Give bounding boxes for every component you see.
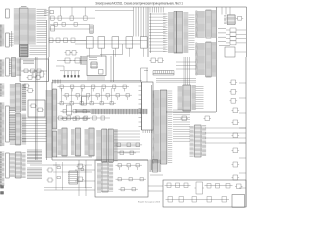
IC D33 register file [160,90,168,164]
far right box lower [225,47,235,57]
IC D32 left labels [178,86,183,109]
IC D20 left labels [46,90,53,157]
comp fr 8 [232,175,240,180]
right edge vertical [245,57,247,207]
IC D1 label block dark [20,45,28,57]
IC D30 left labels [168,13,174,53]
comp in left mid box 2 [37,108,45,112]
analog mesh wires [44,162,92,190]
comp A topleft [50,11,54,14]
IC D30 gate array body [177,12,183,54]
oscillator block outline [87,56,106,76]
IC D5 [15,152,26,178]
bottom right block outline [163,180,246,207]
wires D1 lower to box [30,46,47,55]
osc box left labels [81,56,87,65]
connector X2 labels [0,60,4,77]
gate in box B 1 [23,69,30,73]
gate chain A top2 [50,23,90,27]
gates center r5 [61,117,91,120]
wire A top right [95,10,134,12]
IC D35 [194,125,206,157]
wire conn vertical [11,31,13,47]
gate right mid a [181,116,189,121]
connector small top [6,9,10,18]
box bottom far right [232,195,245,208]
wires RP2 to D31b [176,62,196,69]
vertical bus right top [150,13,152,53]
connector X5 body [6,153,10,178]
gates center r1 [58,85,129,91]
wires far right to edge [239,83,246,188]
FF row A small [49,38,86,43]
gates bottom mid r2 [116,178,146,181]
IC D26 RAM [108,129,118,162]
oscillator box text rows [89,58,97,60]
svg-text:Юрий Зальцман 2003: Юрий Зальцман 2003 [138,200,161,203]
IC D33 left labels [153,90,160,163]
comp mid 2 [39,71,46,77]
wires D1 to box A [44,11,48,16]
dark mark bottom left 2 [1,192,4,195]
comp fr 6 [232,148,240,153]
far right text label [219,45,230,47]
tall box center b [81,97,86,105]
wire far right lower [235,51,246,53]
wires right of center [141,68,149,82]
comp in osc box [99,70,104,75]
vdrops far right top [222,7,230,15]
vertical wire x113.5 [113,50,115,82]
comp fr 7 [232,162,240,167]
comp left crystal [27,89,34,93]
IC D35 left labels [190,126,194,156]
comp bm 2 [77,177,85,182]
wires into D30 [163,14,168,51]
wires right lower [205,128,246,143]
wires X1 to D1 [9,34,13,45]
wire box B [21,70,47,72]
gates center right low2 [118,151,137,155]
dark mark bottom left 1 [1,186,4,189]
IC D31 left labels [196,11,205,38]
gate in box B 2 [29,69,36,73]
wires right top threading [149,14,166,51]
IC D30 gate array pins [174,12,177,54]
long vline pair x35.5 [35,57,37,160]
op-amp IC D28 [68,171,78,184]
bus band dark center left ext [75,110,91,113]
CPU pin stubs [139,86,142,127]
IC D31b left labels [196,43,205,75]
transistor V1 [47,168,54,172]
gates bottom right r3 [166,197,230,203]
resistor R1 [57,167,60,169]
IC D25 left labels [96,130,101,160]
gate right mid b [204,116,212,121]
comp bm 1 [77,164,85,169]
vertical links center gates [62,88,112,103]
IC D30 right names [183,13,188,53]
IC D4 RAM [15,114,26,146]
svg-text:Электроника МС0511. Схема элек: Электроника МС0511. Схема электрическая … [95,1,183,5]
center big block outline [52,82,142,160]
vdrops A top [60,7,85,16]
IC D3 left labels [10,84,15,110]
crystal osc IC D11 [90,62,97,68]
IC D50 left labels [97,163,101,192]
right mid block bottom line [166,111,216,113]
CPU bottom stubs [143,130,152,133]
IC D1 left pin labels [14,9,19,44]
bus band dark center [91,109,148,113]
IC D21 decoder lower [52,131,57,157]
IC D22 left labels [58,129,62,154]
comp fr 4 [232,108,240,113]
comp fr crystal [232,120,240,125]
IC D31 gate array [205,10,216,38]
comp fr top [236,17,243,21]
vertical bus x46.5 [46,20,48,160]
IC D51 [149,160,161,173]
connector X3 labels [0,84,4,97]
osc box bottom stubs [88,76,104,81]
IC D24 RAM [88,128,94,156]
capacitor bank C10-C13 [60,71,80,78]
center block top second line [52,79,142,81]
block divider x148 top band [147,7,149,57]
wires bottom left [44,189,95,191]
center block bottom line [52,159,148,161]
IC D31b gate array [205,42,216,77]
tall box center a [66,105,71,115]
comp A lower 2 [71,51,78,56]
wires D33 right [173,110,190,141]
parts list text block 2 [27,168,42,179]
comp left 1 [23,84,30,88]
gates center r2 [63,94,132,100]
block outline box A top [49,7,247,57]
comp fr 3 [230,99,238,104]
wire mid band [57,60,87,62]
vertical bus x48.3 lower [47,57,49,82]
IC D50 sound gen [101,162,113,192]
comp mid 1 [32,71,39,77]
IC D25 RAM [101,129,107,162]
wires D1 right rows [37,9,47,42]
gate mid G2 [74,58,82,63]
IC D22 RAM [61,128,67,156]
vdrops D32 top [184,57,189,85]
wires D4 right [22,118,47,141]
gates bottom mid r3 [119,188,138,191]
comp A mid small box [51,26,55,31]
bus band ticks [93,109,146,114]
comp br [235,184,243,189]
IC D32 video ctrl [182,85,196,111]
IC D1 right signal names [29,9,36,44]
IC D23 RAM [75,128,81,156]
vertical wire x111 [110,56,112,82]
wires mid center [114,131,140,152]
IC D2 [11,58,21,77]
IC D24 left labels [85,129,89,154]
gates center r4 [61,110,91,113]
gate in box B 3 [36,69,43,73]
bottom mid block outline [95,160,148,197]
wires X4 to D4 [9,108,15,139]
vertical bus x151.5 [151,85,153,170]
center block inner bottom line [56,156,92,158]
comp fr 5 [232,133,240,138]
wires X2 to D2 [9,60,11,73]
gate chain A top [50,16,96,20]
wires out of D30 [189,15,195,50]
connector X4 body [6,106,10,142]
gates center r3 [58,102,116,105]
comp in left mid box [30,104,38,108]
IC D5 left labels [10,153,15,176]
IC D1 bus transceiver [19,8,29,57]
connector X2 body [6,58,10,76]
FF row A wires [49,40,147,42]
gates bottom mid r1 [116,164,142,170]
connector X4 labels [0,103,4,146]
FF row A bottom stubs [90,48,144,57]
IC D23 left labels [71,129,75,154]
wires bottom right [150,174,163,176]
box B outline [20,59,48,82]
wires under D32 [156,79,196,83]
gates center r6 [57,116,110,120]
IC D1 designator [21,6,27,8]
gate in box B 5 [35,76,42,80]
bus drops right top [150,7,163,13]
gates bottom right r2 [205,184,233,189]
wire mid diag [56,66,64,70]
capacitor C1 [81,168,84,171]
resistor network RP2 [153,71,174,76]
comp right mid 2 [157,58,165,63]
parts list text block [27,150,42,163]
gate in box B 4 [27,76,34,80]
connector X5 labels [0,152,4,187]
transistor V2 [47,178,54,182]
IC D33 right names [168,91,172,162]
CPU block outline [142,82,154,130]
bus entry ticks center top [53,80,61,84]
ff bottom right [195,182,205,194]
FF row A big boxes [86,37,147,48]
wire A mid [50,28,90,30]
gates bottom right r1 [165,183,191,188]
IC D3 right labels [22,85,26,109]
IC D40 [224,15,236,25]
left mid box [28,100,45,117]
hatch element A [90,25,94,33]
connector X1 body [6,33,10,47]
IC D4 left labels [10,114,15,144]
connector X1 labels [0,25,4,47]
comp A lower 1 [65,51,72,56]
gates center right low [115,143,143,147]
resistor R2 [57,177,60,179]
block divider x216 top band [216,7,218,112]
IC D32 right names [196,86,204,108]
gate mid G1 [64,58,72,63]
comp right mid 1 [150,58,158,63]
net rows far right [218,28,246,45]
bus drop vlines box A [134,7,147,37]
comp fr 1 [230,80,238,85]
wire mid bottom [75,169,95,171]
comp fr 2 [230,90,238,95]
box B text rows [23,61,34,64]
IC D3 RAM [15,84,26,113]
wire corner y54.5 [100,44,123,55]
IC D1 dark block text [20,46,27,57]
IC D20 decoder [52,89,57,129]
